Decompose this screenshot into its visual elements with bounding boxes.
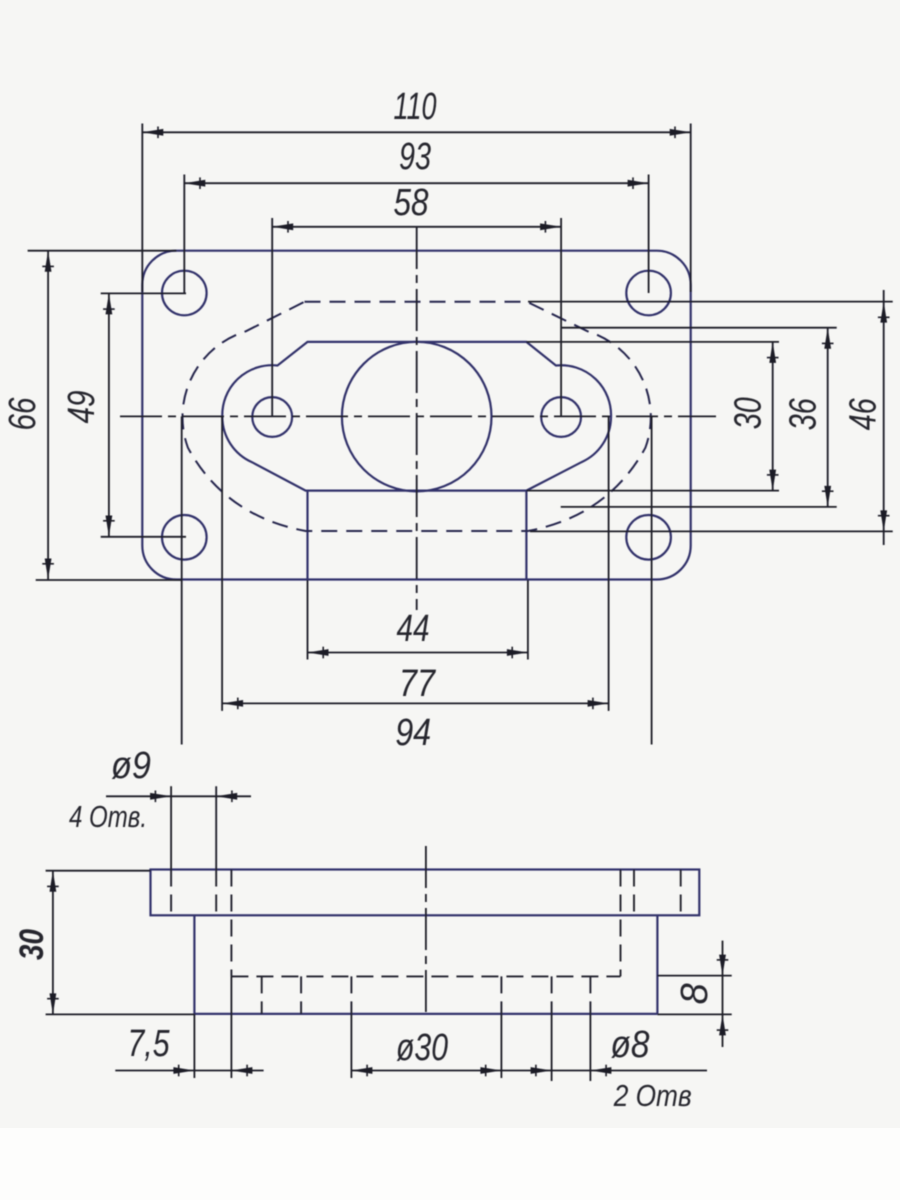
dim 110 ext right (690, 124, 692, 293)
dim d9 ext right (215, 786, 217, 869)
arrows 46 (880, 302, 887, 323)
dim 36 ext bottom (561, 506, 837, 508)
hole d9 left wall b (215, 870, 217, 916)
central bore circle d30 (342, 342, 492, 492)
dim 30 ext top (526, 341, 779, 343)
boss notch right edge (525, 491, 527, 580)
arrows 66 (45, 251, 52, 272)
svg-text:7,5: 7,5 (128, 1023, 171, 1065)
corner hole bottom-right (626, 515, 671, 560)
dim 66 line (47, 251, 49, 580)
hole d8 left wall a (261, 976, 263, 1014)
dim 110 ext left (141, 124, 143, 293)
arrows 36 (824, 328, 831, 349)
dim 44 line (308, 652, 528, 654)
svg-text:44: 44 (397, 608, 430, 650)
dim 30 thickness line (52, 871, 54, 1015)
bore d30 right wall (500, 976, 502, 1014)
svg-text:94: 94 (395, 712, 431, 754)
arrows d8 (outside) (531, 1067, 552, 1074)
dim d9 line (106, 795, 251, 797)
dim 49 ext bottom (101, 536, 186, 538)
dim 93 line (184, 182, 648, 184)
body bottom edge (194, 1013, 657, 1015)
dim 66 ext bottom (36, 579, 182, 581)
dashed mating flange outline (182, 302, 650, 531)
hole d8 right wall a (551, 976, 553, 1014)
dim 93 ext left (183, 175, 185, 294)
dim 94 ext right (651, 416, 653, 744)
boss outline with side lobes (222, 342, 611, 491)
dim 30 ext top (46, 870, 151, 872)
dim 8 ext bottom (657, 1013, 731, 1015)
hole d9 left wall a (170, 870, 172, 916)
corner hole top-left (162, 271, 207, 316)
svg-text:36: 36 (783, 398, 825, 431)
dim 7,5 ext right (230, 976, 232, 1078)
pocket ceiling (231, 975, 620, 977)
dim 58 line (272, 226, 561, 228)
side view vertical centerline (425, 846, 427, 1016)
dim 46 line (883, 290, 885, 545)
arrows 30 thickness (50, 871, 57, 892)
dim 46 ext bottom (530, 530, 893, 532)
paper white margin at bottom (0, 1128, 900, 1200)
svg-text:110: 110 (394, 86, 437, 128)
arrows 49 (106, 293, 113, 314)
dim 36 line (827, 328, 829, 507)
horizontal centerline (120, 415, 716, 417)
svg-text:ø8: ø8 (611, 1024, 650, 1066)
dim 36 ext top (561, 327, 837, 329)
dim d30 ext right (500, 1014, 502, 1078)
pocket left wall (230, 870, 232, 977)
dim 94 ext left (181, 416, 183, 744)
arrows d9 (outside) (150, 793, 171, 800)
bore d30 left wall (350, 976, 352, 1014)
arrows 7,5 (outside) (173, 1067, 194, 1074)
arrows d30 (inside) (351, 1067, 372, 1074)
dim 8 line (722, 941, 724, 1047)
arrows 93 (184, 180, 205, 187)
dim 58 ext left (271, 218, 273, 417)
arrows 110 (142, 129, 163, 136)
svg-text:66: 66 (2, 397, 44, 431)
dim 49 line (108, 293, 110, 536)
dim 46 ext top (528, 301, 893, 303)
dim 8 ext top (657, 975, 731, 977)
dim 44 ext right (527, 580, 529, 660)
dim 7,5 ext left (193, 1014, 195, 1078)
svg-text:77: 77 (399, 663, 437, 705)
arrows 58 (272, 223, 293, 230)
dim 7,5 line (115, 1070, 263, 1072)
body right edge (656, 915, 658, 1014)
pocket right wall (620, 870, 622, 977)
dim d9 ext left (170, 786, 172, 869)
svg-text:30: 30 (728, 397, 770, 429)
flange slab outline (151, 870, 700, 916)
svg-text:58: 58 (394, 182, 429, 224)
dim 44 ext left (307, 580, 309, 660)
svg-text:2 Отв: 2 Отв (613, 1078, 692, 1113)
svg-text:46: 46 (843, 398, 885, 431)
arrows 44 (308, 649, 329, 656)
svg-text:30: 30 (13, 929, 51, 960)
small hole right d8 (541, 397, 581, 437)
arrows 77 (222, 700, 243, 707)
dim 110 line (142, 131, 690, 133)
svg-text:93: 93 (399, 136, 431, 178)
hole d9 right wall b (680, 870, 682, 916)
arrows 30 right (769, 342, 776, 363)
svg-text:8: 8 (674, 983, 716, 1004)
hole d9 right wall a (633, 870, 635, 916)
hole d8 right wall b (589, 976, 591, 1014)
body left edge (193, 915, 195, 1014)
arrows 8 (outside) (719, 955, 726, 976)
dim 49 ext top (101, 292, 186, 294)
dim 93 ext right (648, 175, 650, 294)
dim 77 ext left (221, 416, 223, 711)
vertical centerline (416, 227, 418, 610)
dim 30 right line (772, 342, 774, 491)
dim 77 line (222, 702, 608, 704)
dim d30 and d8 shared line (351, 1070, 708, 1072)
dim 30 ext bottom (46, 1013, 195, 1015)
dim d30 ext left (350, 1014, 352, 1078)
svg-text:ø9: ø9 (111, 745, 151, 787)
dim 77 ext right (608, 416, 610, 711)
dim 66 ext top (28, 250, 177, 252)
dim 58 ext right (560, 218, 562, 417)
dim 30 ext bottom (526, 490, 779, 492)
svg-text:49: 49 (61, 391, 103, 424)
hole d8 left wall b (300, 976, 302, 1014)
corner hole bottom-left (162, 515, 207, 560)
dim d8 ext left (551, 1014, 553, 1081)
svg-text:ø30: ø30 (396, 1027, 448, 1069)
small hole left d8 (252, 397, 292, 437)
dim d8 ext right (589, 1014, 591, 1081)
boss notch left edge (306, 491, 308, 580)
corner hole top-right (626, 271, 671, 316)
plate outer outline 110x66 rounded corners (142, 251, 690, 580)
svg-text:4 Отв.: 4 Отв. (69, 799, 147, 834)
